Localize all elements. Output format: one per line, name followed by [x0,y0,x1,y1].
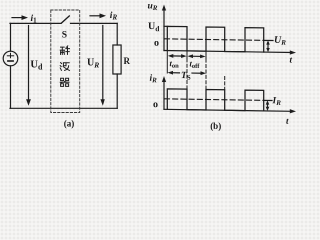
svg-text:IR: IR [272,96,282,107]
voltage arrow UR [100,26,104,106]
wire right branch lower [116,74,118,108]
wire left branch lower [10,66,12,109]
current arrow iR [90,13,106,18]
svg-text:R: R [124,56,131,66]
switch S blade [62,16,70,23]
svg-text:Ud: Ud [30,60,43,72]
wire bottom [10,107,117,109]
wire top left segment [10,22,61,24]
current arrow i1 [12,15,28,20]
DC source internal symbol [7,53,13,61]
svg-text:t: t [290,54,293,64]
svg-text:(b): (b) [210,121,221,131]
ton double arrow [168,54,187,58]
uR pulse train [167,26,263,52]
UR average double arrow [266,40,270,52]
svg-text:o: o [153,99,158,110]
svg-text:toff: toff [190,58,201,70]
tick at ton start [166,51,168,74]
voltage arrow Ud [26,26,31,106]
svg-text:TS: TS [181,71,191,82]
panel b group with slight scan skew [148,1,297,125]
chopper dashed box [51,10,80,113]
toff double arrow [188,54,206,58]
chopper char qi [60,78,69,86]
tick at toff end [205,51,207,59]
svg-text:iR: iR [150,74,158,85]
wire right branch upper [116,23,118,45]
IR average tick [263,99,272,101]
dashed connector at second fall [224,76,226,89]
Ts double arrow [168,71,207,75]
iR waveform x-axis [164,107,296,113]
tick at ton end [186,51,188,59]
svg-text:t: t [286,116,289,126]
svg-text:ton: ton [170,58,180,70]
svg-text:o: o [154,38,159,49]
dashed connector at toff start [186,59,188,89]
iR average dashed line [165,99,261,101]
svg-text:uR: uR [148,1,158,12]
iR waveform y-axis [162,76,166,109]
uR average dashed line [165,39,261,41]
DC source E circle [3,51,18,66]
Ud level tick [164,25,168,27]
chopper char zhan [60,46,69,55]
uR waveform x-axis [164,48,296,54]
svg-text:iR: iR [110,11,118,22]
chopper char bo [60,63,69,71]
svg-text:(a): (a) [64,118,75,128]
svg-text:UR: UR [274,35,286,47]
UR average tick [263,39,273,41]
wire top right segment [71,22,118,24]
svg-text:i1: i1 [31,14,38,25]
resistor R body [113,45,121,74]
iR pulse train [167,89,263,111]
svg-text:S: S [62,30,67,40]
IR average double arrow [266,100,270,111]
dashed connector at toff end [205,59,207,89]
uR waveform y-axis [162,4,166,50]
svg-text:UR: UR [87,57,99,69]
svg-text:Ud: Ud [148,21,160,33]
wire left branch upper [10,23,12,51]
